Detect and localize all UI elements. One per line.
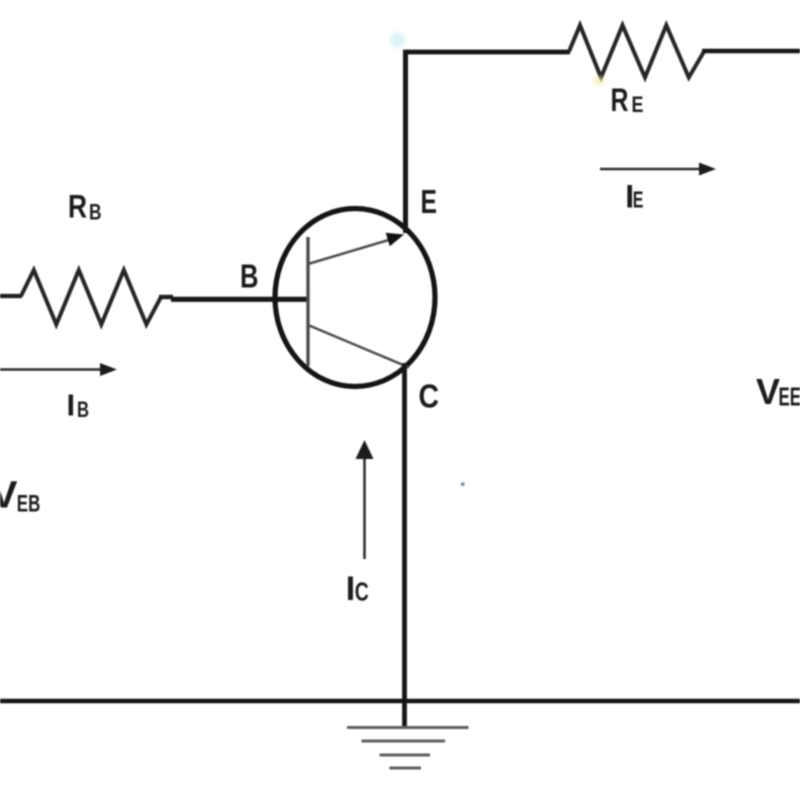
wire: emitter vertical to top rail [403,50,408,233]
transistor Q1 base bar [306,237,309,366]
svg-text:C: C [419,377,440,414]
svg-text:B: B [77,397,89,422]
current arrow IE [600,163,716,176]
current arrow IB [0,363,117,376]
svg-text:R: R [611,82,629,118]
svg-text:C: C [355,577,369,607]
svg-text:E: E [421,183,438,220]
wire: left source lead into resistor RB [0,294,22,298]
artifact: faint cyan smudge near top corner [391,32,406,48]
wire: base lead into transistor [171,297,307,302]
artifact: small gray dot right of collector wire [461,483,464,486]
svg-text:R: R [68,189,87,225]
transistor Q1 emitter arm [308,239,392,264]
svg-text:V: V [756,371,781,412]
wire: top rail to resistor RE [403,50,570,55]
ground symbol [347,728,469,769]
wire: collector vertical to ground bus [402,363,407,727]
svg-text:E: E [632,92,644,117]
svg-text:E: E [633,187,644,213]
ground bus rail [0,699,800,704]
resistor RE [569,25,704,77]
artifact: faint yellow smudge near RE first valley [593,77,605,85]
svg-text:V: V [0,475,18,517]
wire: resistor RB to base node B [159,295,173,299]
svg-text:B: B [89,200,102,225]
resistor RB [21,270,161,325]
transistor Q1 emitter arrowhead [386,233,404,246]
svg-text:I: I [67,387,76,422]
svg-text:B: B [240,258,259,295]
svg-text:EE: EE [779,382,800,412]
current arrow IC [356,440,374,559]
transistor Q1 collector arm [308,325,409,368]
svg-text:EB: EB [17,491,41,518]
transistor Q1 body [275,209,435,387]
wire: resistor RE to right edge [702,49,800,54]
